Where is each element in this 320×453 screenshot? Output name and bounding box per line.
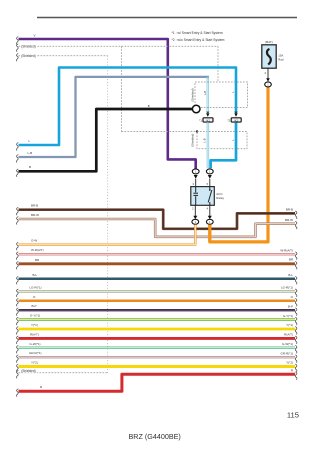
svg-text:LG-R(*1): LG-R(*1) [30,285,42,289]
wire-end curl BR-B left [17,207,19,215]
wire-end curl O left [17,298,19,306]
junction dot shield box 2 [196,130,198,132]
wire O-W from relay pin 2 [19,225,196,245]
connector oval relay contact pin [206,169,213,174]
wire-end curl V [17,37,19,45]
wire-end curl Y(*1) right [295,327,297,335]
wire-end curl Y(*1) left [17,327,19,335]
fuse element symbol [267,49,271,65]
wire-end curl BR-B right [295,211,297,219]
connector box *2 [231,118,241,122]
wire R (A/T) [19,337,296,340]
wire GR-R (*1) [19,356,296,358]
connector oval fuse output [265,82,272,87]
wire-end curl B [17,169,19,177]
wire-end curl R left [17,389,19,397]
wire BR-B [19,210,296,229]
svg-text:(Shielded): (Shielded) [191,134,195,147]
connector arrow into *1 [206,113,209,116]
label (Shielded) bottom [21,368,38,372]
shield dotted vertical run [107,56,109,373]
wire-end curl G-W(*1) right [295,345,297,353]
svg-text:G-Y(*1): G-Y(*1) [30,314,40,318]
svg-text:Y(*1): Y(*1) [31,323,38,327]
wire LG-R (*1) [19,290,296,293]
wire B-L [19,278,296,281]
svg-text:B: B [148,104,150,108]
connector arrow into *2 [234,113,237,116]
svg-text:(Shielded): (Shielded) [21,369,36,373]
arrow into fuse output connector [266,78,270,81]
wire Y (*2) [19,365,296,368]
relay pin lead 3 [195,179,197,187]
wire-end curl Y(*2) left [17,364,19,372]
arrow below contact oval [208,175,212,179]
svg-text:BR-W: BR-W [31,213,39,217]
wire-end curl W-R right [295,252,297,260]
svg-text:L-B: L-B [28,151,33,155]
svg-text:(Shielded): (Shielded) [191,88,195,101]
svg-text:B-L: B-L [33,273,38,277]
svg-text:B-L: B-L [288,273,293,277]
shield ground node circle [192,105,200,113]
wire-end curl G-W(*1) left [17,345,19,353]
svg-text:GR-R(*1): GR-R(*1) [281,351,294,355]
wire O (orange) relay pin 4 vertical over browns [208,225,211,242]
svg-text:(Shielded): (Shielded) [21,45,36,49]
svg-text:*2 : w/o Smart Entry & Start S: *2 : w/o Smart Entry & Start System [172,38,225,42]
wire-end curl B-L left [17,276,19,284]
svg-text:L-B: L-B [202,138,206,142]
wire-end curl Y(*2) right [295,364,297,372]
svg-text:BR-B: BR-B [31,204,38,208]
shield dashed line bottom [19,372,108,374]
wire B (black) shield ground [19,109,194,171]
wire BR-W [19,219,296,237]
svg-text:R(A/T): R(A/T) [284,333,293,337]
connector oval relay out orange [206,219,213,224]
svg-text:(Shielded): (Shielded) [21,54,36,58]
svg-text:*1 : w/ Smart Entry & Start Sy: *1 : w/ Smart Entry & Start System [172,31,223,35]
svg-text:(BAT): (BAT) [265,40,273,44]
wire-end curl BR-W left [17,217,19,225]
header rule [37,17,297,19]
wire BR [19,262,296,265]
wire-end curl B-P left [17,308,19,316]
svg-text:BR-B: BR-B [286,208,293,212]
wire-end curl shield2 [17,53,19,61]
wire L-B (blue-black) from left to connector *1 [19,77,209,157]
shield box 2 (dashed) [197,132,247,149]
svg-text:G-Y(*1): G-Y(*1) [283,314,293,318]
wire-end curl O-W [17,242,19,250]
wire-end curl G-Y(*1) right [295,317,297,325]
svg-text:BR-W: BR-W [285,218,293,222]
wire Y (*1) [19,328,296,331]
wire L below connector *2 [211,122,236,168]
wire-end curl BR left [17,261,19,269]
svg-text:Y(*2): Y(*2) [286,361,293,365]
wire L (blue) from left to connector *2 [19,68,237,146]
wire G-Y (*1) [19,318,296,321]
shield dashed line 2 [19,55,108,57]
wire-end curl W-R left [17,252,19,260]
wire-end curl BR right [295,261,297,269]
wire G-W (*1) [19,347,296,350]
wire-end curl LG-R(*1) left [17,289,19,297]
svg-text:R(A/T): R(A/T) [30,332,39,336]
svg-text:*1: *1 [199,119,202,123]
relay pin lead 4 [209,205,211,216]
wire L-B pale vertical into connector *1 [207,77,209,113]
svg-text:B-P: B-P [32,304,37,308]
connector box *1 [203,118,213,122]
svg-text:115: 115 [287,411,299,420]
svg-text:L-B: L-B [203,91,207,95]
wire-end curl L-B [17,155,19,163]
wire-end curl G-Y(*1) left [17,317,19,325]
relay coil symbol [193,187,198,206]
shield box 1 (dashed) [195,82,248,108]
wire-end curl shield1 [17,44,19,52]
wire-end curl B-P right [295,308,297,316]
connector oval relay out O-W [192,219,199,224]
svg-text:W-R(A/T): W-R(A/T) [31,248,44,252]
fuse pin lead [267,68,269,78]
wire-end curl LG-R(*1) right [295,289,297,297]
wire B-P [19,309,296,311]
shield dashed branch to lower shield box [122,131,197,133]
arrow below coil oval [194,175,198,179]
wire V (violet) to relay coil [19,39,196,169]
svg-text:Y(*2): Y(*2) [31,361,38,365]
svg-text:Rad: Rad [278,58,284,62]
svg-text:B: B [29,165,31,169]
wire-end curl O right [295,298,297,306]
shield dashed line 1 [19,46,219,131]
wire-end curl R(A/T) right [295,336,297,344]
arrow above O-W oval [193,216,197,220]
svg-text:Y(*1): Y(*1) [286,323,293,327]
wire L-B pale below connector *1 [207,122,209,168]
svg-text:BRZ (G4400BE): BRZ (G4400BE) [129,432,181,441]
svg-text:Relay: Relay [216,196,224,200]
wire O [19,300,296,303]
wire-end curl GR-R(*1) left [17,355,19,363]
svg-text:LG-R(*1): LG-R(*1) [281,286,293,290]
wire R (red) bottom [19,374,296,391]
svg-text:*2: *2 [227,119,230,123]
wire O (orange) fuse to relay pin 4 [210,87,268,242]
wire-end curl R(A/T) left [17,336,19,344]
relay pin lead 2 [194,205,196,216]
wire-end curl BR-W right [295,221,297,229]
svg-text:G-W(*1): G-W(*1) [282,342,293,346]
wire-end curl B-L right [295,276,297,284]
svg-text:G-W(*1): G-W(*1) [30,342,41,346]
wire W-R (A/T) [19,253,296,255]
wire-end curl GR-R(*1) right [295,355,297,363]
svg-text:W-R(A/T): W-R(A/T) [280,248,293,252]
relay contact symbol [208,187,212,206]
svg-text:B-P: B-P [288,304,293,308]
svg-text:O-W: O-W [31,239,37,243]
wire-end curl R right [295,372,297,380]
svg-text:V: V [34,34,36,38]
wire-end curl L [17,143,19,151]
arrow above orange oval [208,216,212,220]
connector oval relay coil pin [192,169,199,174]
relay pin lead 5 [209,179,211,187]
relay U: ACC relay box [191,187,215,206]
svg-text:GR-R(*1): GR-R(*1) [29,351,42,355]
